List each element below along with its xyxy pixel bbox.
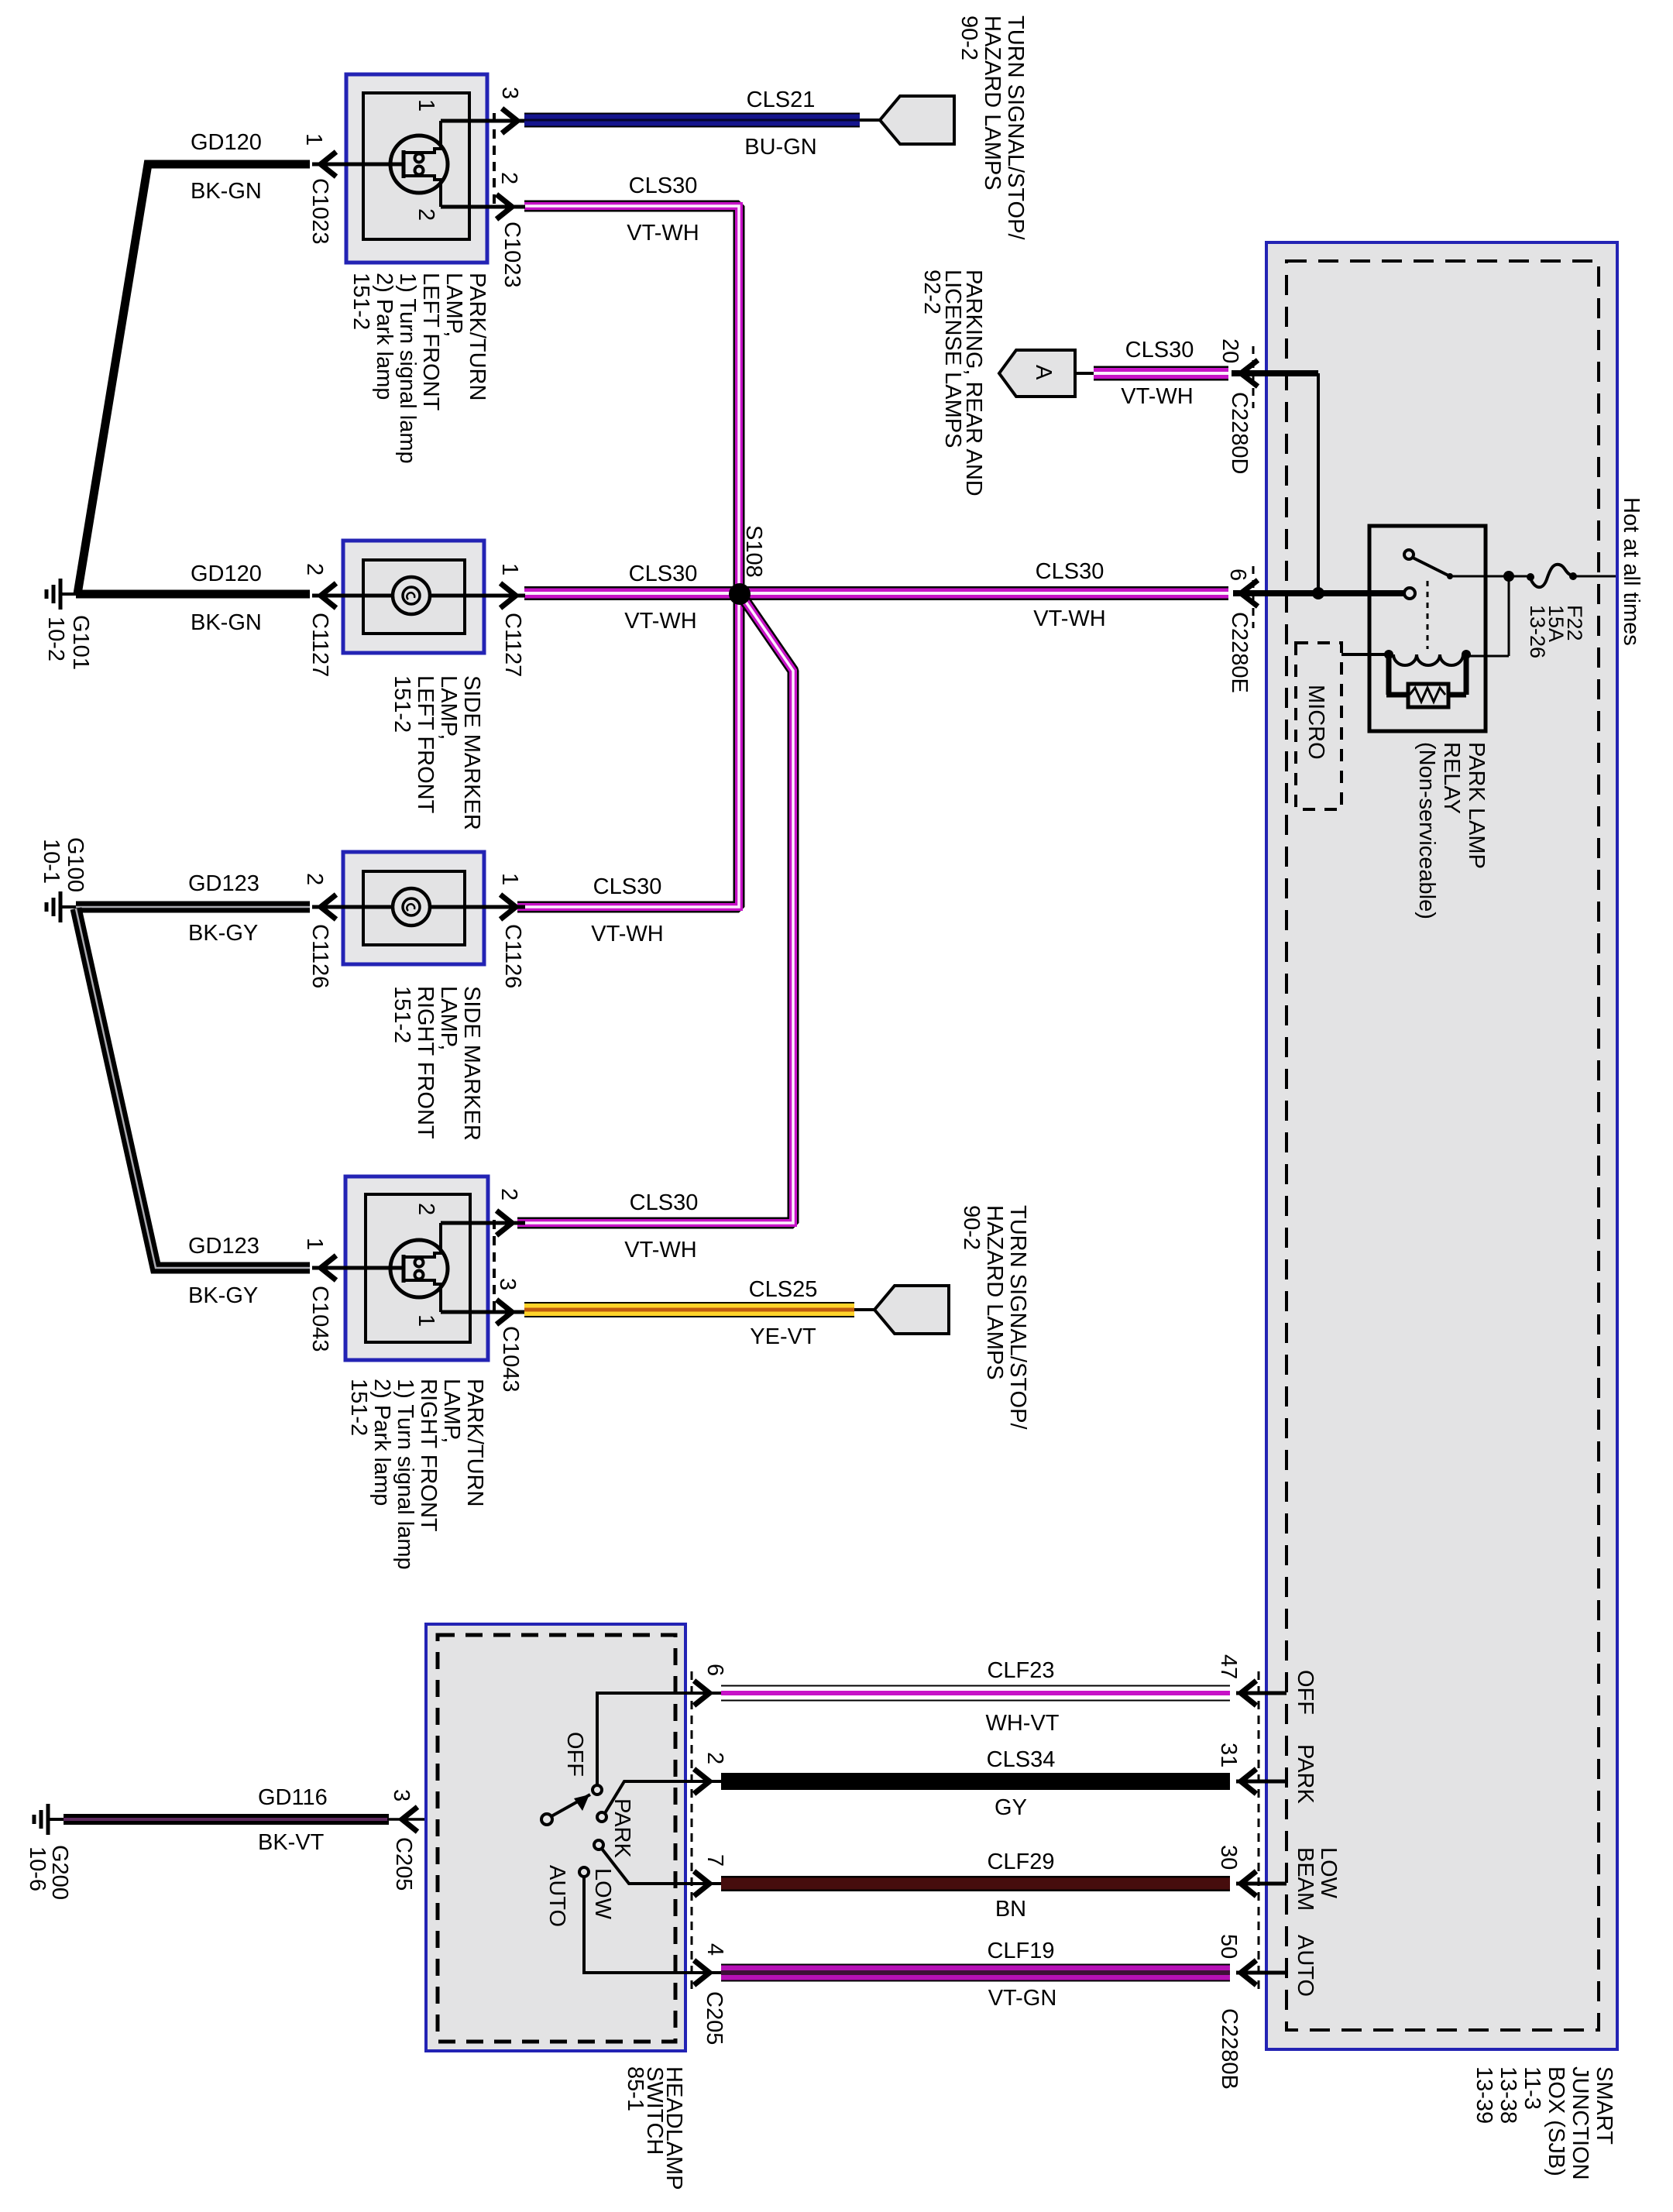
bulb dual filament row4 bbox=[390, 1223, 448, 1312]
label CLF29 BN bbox=[987, 1850, 1054, 1922]
svg-text:BK-GN: BK-GN bbox=[191, 179, 262, 204]
svg-text:1: 1 bbox=[414, 1314, 438, 1327]
bulb single filament row3 bbox=[393, 888, 430, 926]
svg-text:RIGHT FRONT: RIGHT FRONT bbox=[416, 1379, 441, 1532]
svg-text:4: 4 bbox=[703, 1943, 727, 1956]
label GD123 BK-GY row3 bbox=[188, 871, 259, 946]
wire CLF29 BN bbox=[721, 1876, 1230, 1891]
svg-text:GD123: GD123 bbox=[188, 871, 259, 896]
SJB pin 47 arrow bbox=[1236, 1681, 1287, 1705]
svg-text:1) Turn signal lamp: 1) Turn signal lamp bbox=[395, 273, 420, 464]
svg-text:11-3: 11-3 bbox=[1520, 2066, 1544, 2110]
svg-text:151-2: 151-2 bbox=[349, 273, 373, 330]
svg-text:2) Park lamp: 2) Park lamp bbox=[369, 1379, 394, 1506]
label CLS30 VT-WH row3 bbox=[591, 874, 663, 946]
svg-text:CLS34: CLS34 bbox=[987, 1747, 1056, 1772]
ground G101 bbox=[46, 579, 76, 610]
label CLS21 BU-GN bbox=[744, 88, 816, 160]
bulb dual filament row1 bbox=[390, 121, 448, 207]
svg-text:2: 2 bbox=[302, 873, 327, 885]
connector C205 dashed boundary bbox=[691, 1671, 693, 1994]
label CLS30 VT-WH row4 bbox=[624, 1190, 698, 1262]
svg-text:VT-WH: VT-WH bbox=[1033, 606, 1105, 631]
svg-text:13-38: 13-38 bbox=[1496, 2066, 1520, 2124]
svg-text:C1127: C1127 bbox=[307, 613, 332, 677]
svg-text:PARK/TURN: PARK/TURN bbox=[465, 273, 490, 400]
svg-text:G101: G101 bbox=[68, 615, 93, 670]
svg-text:BK-GN: BK-GN bbox=[191, 610, 262, 635]
row2 pin 2 arrow bbox=[321, 583, 336, 608]
relay resistor bbox=[1386, 657, 1466, 707]
svg-text:CLS30: CLS30 bbox=[629, 562, 698, 586]
wire AUTO contact to pin 4 bbox=[584, 1877, 722, 1973]
connector C1043 dashed boundary bbox=[493, 1220, 496, 1315]
svg-text:BK-GY: BK-GY bbox=[188, 921, 258, 946]
svg-text:LAMP,: LAMP, bbox=[436, 675, 461, 740]
svg-text:BOX (SJB): BOX (SJB) bbox=[1544, 2066, 1568, 2176]
svg-text:151-2: 151-2 bbox=[346, 1379, 371, 1436]
svg-text:LOW: LOW bbox=[590, 1868, 615, 1920]
connector C1023 dashed boundary bbox=[493, 113, 496, 208]
label SMART JUNCTION BOX (SJB) 11-3 13-38 13-39 bbox=[1472, 2066, 1616, 2180]
label CLS25 YE-VT bbox=[749, 1277, 818, 1349]
svg-text:3: 3 bbox=[389, 1789, 414, 1802]
wire row4 pin1 internal bbox=[312, 1266, 402, 1270]
switch LOW contact bbox=[594, 1840, 603, 1850]
svg-text:PARK: PARK bbox=[1293, 1744, 1317, 1804]
svg-text:AUTO: AUTO bbox=[1293, 1935, 1317, 1997]
wire row2 pin2 internal bbox=[312, 594, 393, 598]
connector arrow A to parking/rear/license lamps bbox=[999, 350, 1075, 397]
svg-text:VT-WH: VT-WH bbox=[624, 1238, 696, 1262]
svg-text:CLS30: CLS30 bbox=[1036, 559, 1104, 584]
wire CLS30 VT-WH main run S108 to pin 6 bbox=[524, 586, 1228, 600]
svg-text:VT-WH: VT-WH bbox=[1121, 384, 1193, 409]
row4 pin 3 arrow bbox=[496, 1300, 512, 1324]
SJB pin 31 arrow bbox=[1236, 1769, 1287, 1794]
svg-text:13-39: 13-39 bbox=[1472, 2066, 1496, 2124]
wire row3 pin2 internal bbox=[312, 905, 393, 909]
wire CLS30 vertical lamp run (row1 pin2 down to row3 pin1) bbox=[517, 206, 739, 907]
label LOW BEAM (SJB) bbox=[1293, 1847, 1341, 1911]
wire pin 6 to relay common bbox=[1233, 580, 1404, 606]
svg-text:RELAY: RELAY bbox=[1439, 742, 1464, 814]
svg-text:90-2: 90-2 bbox=[959, 1205, 984, 1250]
svg-text:2: 2 bbox=[496, 172, 521, 184]
row4 pin 2 arrow bbox=[496, 1211, 512, 1235]
svg-text:C205: C205 bbox=[391, 1837, 416, 1891]
wire PARK contact to pin 2 bbox=[605, 1781, 722, 1813]
relay switch contact bbox=[1404, 550, 1509, 579]
row4 pin 1 arrow bbox=[321, 1255, 336, 1280]
wire GD123 BK-GY row4 to ground bbox=[76, 908, 310, 1268]
svg-text:BEAM: BEAM bbox=[1293, 1847, 1317, 1911]
svg-text:30: 30 bbox=[1216, 1845, 1241, 1870]
svg-text:BK-VT: BK-VT bbox=[258, 1830, 325, 1855]
svg-text:47: 47 bbox=[1216, 1654, 1241, 1679]
label PARKING, REAR AND LICENSE LAMPS 92-2 bbox=[919, 270, 986, 496]
svg-text:CLS30: CLS30 bbox=[593, 874, 662, 899]
label GD120 BK-GN row1 bbox=[191, 130, 262, 204]
svg-text:10-2: 10-2 bbox=[43, 617, 68, 661]
pin 20 arrow C2280D bbox=[1232, 360, 1318, 386]
svg-text:VT-WH: VT-WH bbox=[627, 221, 699, 246]
svg-text:90-2: 90-2 bbox=[957, 15, 981, 60]
wire GD123 BK-GY row3 bbox=[76, 902, 310, 913]
park/turn lamp right front box bbox=[345, 1176, 488, 1360]
pin 2 arrow bbox=[496, 194, 512, 219]
wire LOW contact to pin 7 bbox=[602, 1849, 722, 1884]
svg-text:CLS30: CLS30 bbox=[629, 173, 698, 198]
svg-text:C2280E: C2280E bbox=[1227, 612, 1252, 693]
node junction fuse/switch/coil bbox=[1469, 571, 1514, 656]
wire CLS25 YE-VT bbox=[524, 1302, 874, 1317]
wire OFF contact to pin 6 bbox=[597, 1693, 722, 1784]
label TURN SIGNAL/STOP/ HAZARD LAMPS 90-2 (row4) bbox=[959, 1205, 1030, 1430]
connector arrow to turn signal/stop/hazard lamps (bottom) bbox=[874, 1286, 949, 1334]
row3 pin 2 arrow bbox=[321, 895, 336, 919]
svg-text:BN: BN bbox=[995, 1897, 1026, 1922]
svg-text:YE-VT: YE-VT bbox=[750, 1324, 816, 1349]
label G200 10-6 bbox=[25, 1845, 72, 1900]
label PARK/TURN LAMP, RIGHT FRONT block bbox=[346, 1379, 487, 1570]
label PARK LAMP RELAY (Non-serviceable) bbox=[1414, 742, 1489, 919]
connector dashes C2280D/E bbox=[1252, 346, 1255, 628]
svg-text:WH-VT: WH-VT bbox=[985, 1711, 1059, 1736]
svg-text:VT-GN: VT-GN bbox=[988, 1986, 1057, 2011]
svg-text:2: 2 bbox=[703, 1752, 727, 1764]
svg-text:VT-WH: VT-WH bbox=[624, 609, 696, 634]
svg-text:2: 2 bbox=[414, 1203, 438, 1215]
svg-text:SMART: SMART bbox=[1592, 2066, 1616, 2145]
svg-text:OFF: OFF bbox=[562, 1732, 587, 1777]
svg-text:31: 31 bbox=[1216, 1743, 1241, 1767]
micro box bbox=[1296, 643, 1341, 809]
ground G200 bbox=[34, 1804, 64, 1835]
svg-text:HAZARD LAMPS: HAZARD LAMPS bbox=[982, 1205, 1007, 1380]
wire lamp pin2 internal bbox=[441, 205, 525, 209]
svg-text:PARK/TURN: PARK/TURN bbox=[462, 1379, 487, 1506]
pin 1 arrow bbox=[321, 152, 336, 177]
svg-text:Hot at all times: Hot at all times bbox=[1619, 497, 1644, 646]
svg-text:LOW: LOW bbox=[1316, 1847, 1341, 1899]
svg-text:VT-WH: VT-WH bbox=[591, 922, 663, 946]
svg-text:TURN SIGNAL/STOP/: TURN SIGNAL/STOP/ bbox=[1005, 1205, 1030, 1430]
svg-text:PARK: PARK bbox=[610, 1798, 634, 1858]
svg-text:GD123: GD123 bbox=[188, 1234, 259, 1259]
splice S108 bbox=[729, 583, 751, 605]
switch common contact bbox=[541, 1814, 552, 1825]
relay actuator dashed link bbox=[1427, 581, 1429, 649]
fuse F22 15A bbox=[1527, 565, 1577, 587]
svg-text:CLS30: CLS30 bbox=[1125, 338, 1194, 362]
label GD123 BK-GY row4 bbox=[188, 1234, 259, 1308]
svg-text:BK-GY: BK-GY bbox=[188, 1283, 258, 1308]
switch pin 6 arrow bbox=[694, 1681, 709, 1705]
svg-text:C1127: C1127 bbox=[500, 613, 525, 677]
svg-text:C1043: C1043 bbox=[307, 1286, 332, 1352]
wire CLF23 WH-VT bbox=[721, 1685, 1230, 1702]
svg-text:JUNCTION: JUNCTION bbox=[1568, 2066, 1592, 2180]
label CLF19 VT-GN bbox=[987, 1939, 1056, 2011]
headlamp switch pin 3 arrow bbox=[387, 1807, 542, 1832]
wire GD116 BK-VT bbox=[64, 1814, 389, 1825]
svg-text:G200: G200 bbox=[47, 1845, 72, 1900]
park/turn lamp left front box bbox=[346, 74, 487, 263]
svg-text:HAZARD LAMPS: HAZARD LAMPS bbox=[980, 15, 1005, 191]
svg-text:CLS25: CLS25 bbox=[749, 1277, 818, 1302]
connector C2280B dashed boundary bbox=[1258, 1671, 1260, 1994]
svg-text:MICRO: MICRO bbox=[1304, 685, 1328, 760]
svg-text:PARK LAMP: PARK LAMP bbox=[1464, 742, 1489, 869]
wire row3 pin1 internal bbox=[430, 905, 525, 909]
svg-text:C2280B: C2280B bbox=[1217, 2008, 1242, 2090]
svg-text:20: 20 bbox=[1218, 338, 1242, 363]
svg-text:(Non-serviceable): (Non-serviceable) bbox=[1414, 742, 1439, 919]
svg-text:2) Park lamp: 2) Park lamp bbox=[372, 273, 397, 400]
wire link pin20 to pin6 inside SJB bbox=[1312, 373, 1324, 599]
switch pin 7 arrow bbox=[694, 1871, 709, 1896]
svg-text:C1126: C1126 bbox=[500, 924, 525, 988]
bulb single filament row2 bbox=[393, 577, 430, 614]
svg-text:50: 50 bbox=[1216, 1934, 1241, 1959]
park lamp relay box bbox=[1369, 526, 1486, 731]
svg-text:GD120: GD120 bbox=[191, 130, 262, 155]
svg-text:6: 6 bbox=[1225, 568, 1250, 581]
svg-text:LEFT FRONT: LEFT FRONT bbox=[413, 675, 438, 814]
wire row2 pin1 internal bbox=[430, 594, 525, 598]
relay common contact bbox=[1404, 588, 1415, 599]
label CLS30 VT-WH (pin 20) bbox=[1121, 338, 1194, 409]
switch arm bbox=[551, 1795, 590, 1816]
label HEADLAMP SWITCH 85-1 block bbox=[623, 2066, 686, 2190]
wire CLF19 VT-GN bbox=[721, 1964, 1230, 1982]
switch PARK contact bbox=[597, 1812, 606, 1822]
svg-text:RIGHT FRONT: RIGHT FRONT bbox=[413, 986, 438, 1139]
svg-text:G100: G100 bbox=[63, 837, 88, 892]
svg-text:10-1: 10-1 bbox=[39, 839, 64, 884]
label GD120 BK-GN row2 bbox=[191, 562, 262, 635]
svg-text:3: 3 bbox=[497, 87, 522, 99]
svg-text:CLF19: CLF19 bbox=[987, 1939, 1054, 1963]
switch pin 4 arrow bbox=[694, 1960, 709, 1985]
svg-text:GD116: GD116 bbox=[258, 1785, 328, 1810]
side marker lamp left front box bbox=[343, 541, 484, 653]
svg-text:GY: GY bbox=[995, 1795, 1027, 1820]
svg-text:3: 3 bbox=[495, 1278, 520, 1290]
SJB pin 50 arrow bbox=[1236, 1960, 1287, 1985]
label CLS30 VT-WH row1 bbox=[627, 173, 699, 246]
svg-text:C1023: C1023 bbox=[500, 222, 524, 287]
side marker lamp right front box bbox=[343, 852, 484, 964]
svg-text:BU-GN: BU-GN bbox=[744, 135, 816, 160]
wire CLS30 diagonal branch to row4 pin2 bbox=[517, 596, 793, 1223]
switch OFF contact bbox=[593, 1785, 602, 1795]
label PARK/TURN LAMP, LEFT FRONT block bbox=[349, 273, 490, 464]
connector arrow to turn signal/stop/hazard lamps (top) bbox=[880, 96, 954, 144]
svg-text:CLF23: CLF23 bbox=[987, 1658, 1054, 1683]
svg-text:85-1: 85-1 bbox=[623, 2066, 648, 2111]
smart junction box SJB bbox=[1266, 242, 1617, 2049]
wire hot feed to fuse bbox=[1509, 575, 1616, 578]
svg-text:LEFT FRONT: LEFT FRONT bbox=[418, 273, 443, 411]
wire GD120 BK-GN row2 bbox=[76, 590, 310, 599]
label TURN SIGNAL/STOP/ HAZARD LAMPS 90-2 (top) bbox=[957, 15, 1028, 240]
wire CLS21 BU-GN bbox=[524, 113, 880, 128]
label CLS30 VT-WH (to pin 6) bbox=[1033, 559, 1105, 631]
wire CLS34 GY bbox=[721, 1773, 1230, 1790]
svg-text:CLS21: CLS21 bbox=[747, 88, 816, 112]
label SIDE MARKER LAMP, RIGHT FRONT block bbox=[390, 986, 484, 1141]
label CLS34 GY bbox=[987, 1747, 1056, 1820]
svg-text:2: 2 bbox=[414, 208, 438, 221]
svg-text:1: 1 bbox=[301, 133, 326, 146]
svg-text:LAMP,: LAMP, bbox=[439, 1379, 464, 1443]
switch pin 2 arrow bbox=[694, 1769, 709, 1794]
svg-text:TURN SIGNAL/STOP/: TURN SIGNAL/STOP/ bbox=[1003, 15, 1028, 240]
svg-text:92-2: 92-2 bbox=[919, 270, 944, 314]
svg-text:C1043: C1043 bbox=[498, 1326, 523, 1392]
svg-text:7: 7 bbox=[703, 1854, 727, 1867]
svg-text:1: 1 bbox=[302, 1238, 327, 1250]
svg-text:S108: S108 bbox=[741, 525, 766, 578]
label CLF23 WH-VT bbox=[985, 1658, 1059, 1736]
svg-text:6: 6 bbox=[703, 1664, 727, 1676]
wire lamp pin3 internal bbox=[441, 119, 525, 123]
svg-text:LAMP,: LAMP, bbox=[436, 986, 461, 1050]
switch AUTO contact bbox=[579, 1867, 589, 1877]
label GD116 BK-VT bbox=[258, 1785, 328, 1855]
svg-text:SIDE MARKER: SIDE MARKER bbox=[459, 986, 484, 1141]
wire CLS30 VT-WH from A connector to pin 20 bbox=[1075, 366, 1228, 381]
svg-text:13-26: 13-26 bbox=[1526, 605, 1549, 658]
label G101 10-2 bbox=[43, 615, 93, 670]
ground G100 bbox=[46, 891, 76, 922]
label F22 15A 13-26 bbox=[1526, 605, 1586, 658]
svg-text:SIDE MARKER: SIDE MARKER bbox=[459, 675, 484, 830]
svg-text:C2280D: C2280D bbox=[1227, 392, 1252, 474]
wire lamp pin1 internal bbox=[312, 163, 402, 167]
svg-text:AUTO: AUTO bbox=[544, 1865, 569, 1927]
headlamp switch box bbox=[426, 1624, 685, 2051]
svg-text:CLF29: CLF29 bbox=[987, 1850, 1054, 1874]
svg-text:CLS30: CLS30 bbox=[630, 1190, 699, 1215]
row2 pin 1 arrow bbox=[500, 583, 516, 608]
svg-text:C205: C205 bbox=[702, 1991, 727, 2045]
svg-text:C1023: C1023 bbox=[307, 178, 332, 244]
svg-text:1: 1 bbox=[414, 99, 438, 112]
wire row4 pin3 internal bbox=[441, 1310, 525, 1314]
relay coil bbox=[1341, 650, 1471, 665]
svg-text:10-6: 10-6 bbox=[25, 1846, 50, 1891]
svg-text:2: 2 bbox=[496, 1188, 521, 1200]
svg-text:LAMP,: LAMP, bbox=[441, 273, 466, 337]
svg-text:1: 1 bbox=[497, 873, 522, 885]
svg-text:C1126: C1126 bbox=[307, 924, 332, 988]
svg-text:1) Turn signal lamp: 1) Turn signal lamp bbox=[393, 1379, 417, 1570]
label SIDE MARKER LAMP, LEFT FRONT block bbox=[390, 675, 484, 830]
wire GD120 BK-GN row1 to ground bbox=[77, 164, 310, 594]
SJB pin 30 arrow bbox=[1236, 1871, 1287, 1896]
pin 3 arrow bbox=[502, 108, 517, 133]
label G100 10-1 bbox=[39, 837, 88, 892]
svg-text:1: 1 bbox=[497, 563, 522, 575]
label CLS30 VT-WH (left of S108) bbox=[624, 562, 697, 634]
wire row4 pin2 internal bbox=[441, 1221, 525, 1225]
svg-text:A: A bbox=[1031, 365, 1056, 380]
svg-text:151-2: 151-2 bbox=[390, 675, 414, 733]
svg-text:OFF: OFF bbox=[1293, 1670, 1317, 1715]
svg-text:2: 2 bbox=[302, 563, 327, 575]
row3 pin 1 arrow bbox=[500, 895, 516, 919]
svg-text:151-2: 151-2 bbox=[390, 986, 414, 1043]
svg-text:GD120: GD120 bbox=[191, 562, 262, 586]
